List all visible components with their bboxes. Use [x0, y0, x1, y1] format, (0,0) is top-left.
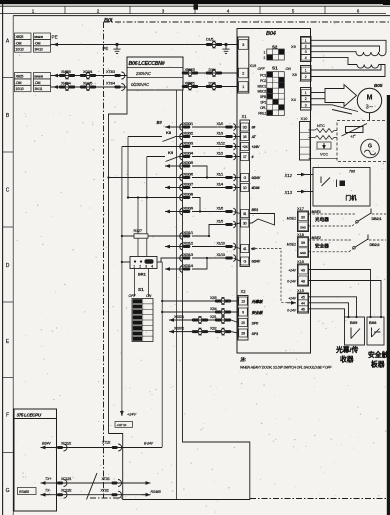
- svg-text:F: F: [6, 413, 9, 419]
- svg-text:9: 9: [242, 311, 244, 315]
- svg-text:光电器: 光电器: [314, 216, 329, 223]
- svg-text:MSE1: MSE1: [287, 217, 296, 221]
- svg-text:30: 30: [301, 215, 305, 219]
- off-page reference table (PE, group 1): [15, 33, 32, 39]
- svg-text:16: 16: [243, 135, 247, 139]
- wire v11 (BR1 to X2 rows and B-24V): [161, 262, 163, 447]
- wire X030/8 loop to X030/9: [192, 198, 200, 212]
- svg-text:1: 1: [305, 69, 307, 73]
- svg-text:X8/25: X8/25: [16, 75, 24, 79]
- svg-text:2: 2: [97, 8, 100, 13]
- svg-text:6: 6: [357, 8, 360, 13]
- ground symbol 1 on PE wire: [113, 43, 120, 54]
- svg-text:XT1/2: XT1/2: [102, 441, 110, 445]
- svg-text:X1: X1: [242, 114, 248, 119]
- X1 pin 10: [241, 184, 249, 192]
- door operator board B04: [237, 29, 311, 354]
- X1 pin 41: [241, 245, 249, 253]
- svg-text:3∼: 3∼: [366, 105, 374, 111]
- svg-text:B0I: B0I: [104, 18, 113, 24]
- door switch box (B6): [313, 168, 370, 207]
- wire X4.3 lower horn: [311, 105, 358, 112]
- switch DB2:1: [358, 213, 372, 222]
- svg-text:3: 3: [305, 103, 307, 107]
- svg-text:安全器: 安全器: [315, 243, 329, 250]
- X1 pin 31: [241, 210, 249, 218]
- wire v8 below BR1: [134, 269, 136, 297]
- wire B06 output 230V via XB17/2, D1/4 to X19.2: [183, 72, 237, 74]
- svg-text:X1/2: X1/2: [217, 151, 224, 155]
- svg-text:+24V: +24V: [288, 269, 297, 273]
- arrow +24V end: [120, 410, 124, 416]
- svg-text:MSE2: MSE2: [287, 242, 296, 246]
- svg-text:ON: ON: [286, 67, 292, 71]
- svg-text:+24: +24: [242, 145, 247, 149]
- arrow into PE reference: [53, 43, 62, 47]
- svg-text:0-24V: 0-24V: [287, 280, 297, 284]
- svg-text:RS485: RS485: [19, 490, 29, 494]
- svg-text:PC1: PC1: [260, 73, 266, 77]
- scan artifact: top black bar: [0, 0, 390, 4]
- X1 pin 16: [241, 133, 249, 141]
- svg-text:X17: X17: [297, 206, 304, 211]
- svg-text:X2/4: X2/4: [210, 307, 217, 311]
- wire X16.49 to relay B08: [309, 270, 371, 318]
- unit boundary B01: dash-dot enclosure: [104, 21, 390, 23]
- svg-text:OFF: OFF: [129, 294, 137, 298]
- dashed enclosure: motor sensors: [337, 121, 389, 162]
- svg-text:B09: B09: [350, 320, 358, 325]
- wire v7 (K9 branch to BR1): [146, 157, 148, 258]
- svg-text:X8: X8: [292, 72, 297, 77]
- svg-text:DB2:2: DB2:2: [370, 243, 380, 247]
- svg-text:1: 1: [305, 91, 307, 95]
- svg-text:39: 39: [301, 241, 305, 245]
- wire X4.2: [311, 98, 325, 100]
- svg-text:RRL1: RRL1: [258, 112, 266, 116]
- wire X15.45 to relay B09: [309, 297, 357, 317]
- svg-text:X1/12: X1/12: [217, 141, 225, 145]
- svg-text:X1/0: X1/0: [217, 122, 224, 126]
- svg-text:X9: X9: [291, 44, 296, 49]
- svg-text:OFF: OFF: [258, 67, 266, 71]
- svg-text:X031/1: X031/1: [183, 231, 193, 235]
- svg-text:X15: X15: [297, 288, 304, 293]
- wire X9.4: [311, 57, 357, 64]
- wire TX+ / RS485: [41, 482, 147, 484]
- wire from B06 bottom down to terminal area: [176, 90, 178, 500]
- svg-text:GND: GND: [300, 251, 306, 255]
- wire NTC return: [309, 136, 338, 140]
- svg-text:13: 13: [241, 300, 245, 304]
- svg-text:10: 10: [243, 186, 247, 190]
- X1 pin 30: [241, 219, 249, 227]
- inductor coil L1: [356, 52, 386, 56]
- svg-text:X030/4: X030/4: [183, 151, 193, 155]
- jumper block BR1: [122, 261, 130, 263]
- svg-text:29: 29: [241, 332, 245, 336]
- svg-text:X030/6: X030/6: [183, 172, 193, 176]
- wire X030/3 to +24V rail: [122, 146, 183, 148]
- svg-text:S2: S2: [272, 44, 278, 49]
- wire v2 (from B06 bottom-left jog): [109, 90, 128, 434]
- wire PE horizontal run: [51, 44, 238, 46]
- svg-text:S1: S1: [272, 66, 278, 71]
- svg-text:X031/3: X031/3: [183, 253, 193, 257]
- dashed wire MSE1 to DB2:1: [309, 213, 356, 215]
- svg-text:MSC1: MSC1: [257, 84, 266, 88]
- svg-text:B#: B#: [157, 120, 163, 125]
- svg-text:2: 2: [305, 45, 307, 49]
- svg-text:X8/25: X8/25: [16, 35, 24, 39]
- off-page reference table (mains, group 2): [15, 73, 32, 79]
- svg-text:安全触: 安全触: [368, 350, 389, 359]
- inductor coil L2: [357, 65, 379, 69]
- X2 pin 9: [239, 308, 248, 316]
- motor ground stub: [369, 113, 371, 121]
- encoder G: [361, 139, 380, 158]
- svg-text:X10: X10: [301, 116, 309, 121]
- dashed wire MSE2 to DB2:2: [309, 239, 353, 241]
- svg-text:SP1: SP1: [252, 332, 259, 336]
- wire B06 output 0V via XB17/1, D1/3 to X19.1: [183, 86, 237, 88]
- svg-text:41: 41: [243, 247, 247, 251]
- X1 pin G: [241, 257, 249, 265]
- svg-text:TX-: TX-: [45, 489, 51, 493]
- wire X031/4 loop up to X031/3: [192, 258, 207, 269]
- svg-text:PC2: PC2: [260, 79, 266, 83]
- relay B08 (safety edge): [367, 317, 384, 345]
- svg-text:XT3/4: XT3/4: [106, 82, 115, 86]
- X1 pin G: [241, 174, 249, 182]
- svg-text:X4: X4: [291, 97, 297, 102]
- wire B/24V to XT1/2: [41, 447, 163, 449]
- svg-text:G: G: [368, 144, 372, 150]
- svg-text:48: 48: [301, 280, 305, 284]
- frame: top number band lines: [0, 5, 390, 7]
- svg-text:1: 1: [133, 265, 135, 269]
- svg-text:SPB: SPB: [260, 95, 267, 99]
- svg-text:X13: X13: [284, 190, 293, 195]
- svg-text:786: 786: [349, 170, 355, 174]
- frame: inner drawing border: [13, 15, 390, 17]
- svg-text:+t°: +t°: [350, 134, 356, 139]
- svg-text:XT2/1: XT2/1: [102, 477, 110, 481]
- X2 pin 29: [239, 329, 248, 337]
- frame: column number ticks: [64, 6, 66, 13]
- svg-text:X1/6: X1/6: [217, 206, 224, 210]
- twisted pair symbol: [87, 473, 98, 500]
- svg-text:X1/5: X1/5: [217, 219, 224, 223]
- svg-text:X12: X12: [284, 173, 293, 178]
- svg-text:X1/10: X1/10: [217, 241, 225, 245]
- svg-text:-C27 10: -C27 10: [117, 423, 127, 427]
- svg-text:K9: K9: [168, 150, 174, 155]
- svg-text:0/230VAC: 0/230VAC: [131, 82, 150, 87]
- thermistor +t: [346, 127, 364, 133]
- svg-text:X16: X16: [297, 259, 304, 264]
- svg-text:B04: B04: [266, 31, 277, 37]
- svg-text:板器: 板器: [371, 360, 385, 369]
- svg-text:X1/1: X1/1: [217, 172, 224, 176]
- svg-text:光幕板: 光幕板: [251, 299, 264, 304]
- svg-text:X1/4: X1/4: [217, 182, 224, 186]
- svg-text:X037/1: X037/1: [174, 315, 184, 319]
- svg-text:X84&X8: X84&X8: [34, 35, 43, 39]
- svg-text:X030/5: X030/5: [183, 161, 193, 165]
- svg-text:#: #: [252, 155, 254, 159]
- wire loop B06 to bottom terminal area: [109, 90, 250, 500]
- svg-text:OFL: OFL: [260, 106, 266, 110]
- frame: left letter band inner line + row ticks: [12, 16, 14, 515]
- svg-text:门机: 门机: [346, 194, 358, 202]
- wire X030/6 long left run: [109, 177, 184, 179]
- svg-text:X2/1: X2/1: [210, 315, 217, 319]
- svg-text:MSC2: MSC2: [257, 90, 266, 94]
- connector row X037/2 / X2/2: [177, 331, 231, 333]
- resistor R127 on X031/1 row: [122, 235, 134, 237]
- svg-text:X18: X18: [297, 232, 304, 237]
- wire 0/230VAC feed (XM5/4-XC3/5-XT3/4): [51, 86, 128, 88]
- svg-text:DB2:1: DB2:1: [372, 217, 382, 221]
- svg-text:0/24V: 0/24V: [252, 176, 261, 180]
- svg-text:3: 3: [162, 8, 165, 13]
- scan artifact: right black edge bar: [387, 95, 390, 515]
- svg-text:B08: B08: [369, 320, 377, 325]
- svg-text:45: 45: [301, 296, 305, 300]
- X2 pin 13: [239, 297, 248, 305]
- wire X2/4 row: [162, 311, 238, 313]
- svg-text:0/24V: 0/24V: [252, 260, 261, 264]
- svg-text:MSE1: MSE1: [312, 210, 321, 214]
- svg-text:NTC: NTC: [317, 123, 325, 128]
- wire v4 +24V rail: [121, 147, 123, 412]
- connector X19 on B04: [238, 37, 249, 93]
- svg-text:2: 2: [305, 97, 307, 101]
- dashed link pin 41 to X15 pin 44: [251, 249, 287, 303]
- svg-text:2: 2: [305, 75, 307, 79]
- svg-text:1/3 10: 1/3 10: [16, 87, 24, 91]
- svg-text:4: 4: [227, 8, 230, 13]
- svg-text:-DM: -DM: [35, 41, 41, 45]
- wire X030/9 to pin 31 (slight bend): [234, 212, 241, 214]
- svg-text:X030/9: X030/9: [183, 206, 193, 210]
- wire TX- / RS485: [41, 494, 147, 496]
- svg-text:44: 44: [301, 302, 305, 306]
- svg-text:X037/2: X037/2: [174, 326, 184, 330]
- svg-text:2: 2: [139, 265, 141, 269]
- wire v6 (to BR1): [137, 198, 139, 258]
- svg-text:PE: PE: [52, 35, 58, 40]
- svg-text:1: 1: [32, 8, 35, 13]
- svg-text:B-24V: B-24V: [144, 442, 154, 446]
- svg-text:-DM: -DM: [16, 41, 22, 45]
- X1 pin 17: [241, 153, 249, 161]
- svg-text:1/3 10: 1/3 10: [16, 48, 24, 52]
- connector row X037/1 / X2/1: [177, 319, 231, 321]
- svg-text:3/4 10: 3/4 10: [35, 48, 43, 52]
- svg-text:S1: S1: [138, 287, 144, 292]
- svg-text:0#: 0#: [252, 126, 256, 130]
- svg-text:X19: X19: [250, 64, 257, 68]
- svg-text:B06 LCECCBN#: B06 LCECCBN#: [129, 61, 165, 67]
- switch DB2:2: [355, 239, 369, 248]
- wire X8.2: [311, 65, 385, 77]
- svg-text:2: 2: [264, 56, 266, 60]
- svg-text:30: 30: [243, 222, 247, 226]
- svg-text:0-24V: 0-24V: [287, 309, 297, 313]
- svg-text:46: 46: [301, 308, 305, 312]
- svg-text:3: 3: [145, 265, 147, 269]
- link symbol between pins 31 and 30: [250, 214, 275, 226]
- shield symbol: [317, 142, 331, 149]
- X1 pin SD: [241, 123, 249, 131]
- svg-text:B05: B05: [374, 83, 383, 89]
- svg-text:X030/3: X030/3: [183, 141, 193, 145]
- svg-text:X031/4: X031/4: [183, 264, 193, 268]
- svg-text:+24V: +24V: [127, 413, 136, 417]
- ground symbol 2 before X19: [222, 43, 229, 54]
- RS485 label box inside LCECPU: [18, 488, 37, 495]
- svg-text:RS485: RS485: [151, 490, 161, 494]
- wire X9.1: [311, 40, 386, 52]
- svg-text:SP1: SP1: [260, 101, 266, 105]
- svg-text:X1/3: X1/3: [217, 131, 224, 135]
- svg-text:X2/5: X2/5: [210, 296, 217, 300]
- wire X4.1: [311, 92, 325, 94]
- svg-text:R127: R127: [134, 229, 142, 233]
- svg-text:TX+: TX+: [45, 477, 52, 481]
- svg-text:D1/5: D1/5: [206, 38, 213, 42]
- wire X031/2 to pin 41: [234, 247, 241, 249]
- svg-text:D: D: [6, 263, 10, 269]
- wire X031/3 hook to BR1: [161, 258, 183, 262]
- svg-text:X030/1: X030/1: [183, 122, 193, 126]
- reference box -C27 10: [115, 422, 133, 428]
- svg-text:PE: PE: [103, 46, 109, 51]
- svg-text:X030/8: X030/8: [183, 192, 193, 196]
- cable arrow to motor: [325, 85, 357, 107]
- svg-text:ON: ON: [146, 294, 152, 298]
- svg-text:X1/13: X1/13: [217, 253, 225, 257]
- svg-text:XT3/3: XT3/3: [106, 70, 115, 74]
- switch blade inside: [320, 177, 322, 184]
- svg-text:X2/2: X2/2: [210, 326, 217, 330]
- svg-text:X030/2: X030/2: [183, 131, 193, 135]
- svg-text:X84&X8: X84&X8: [34, 75, 43, 79]
- svg-text:X2: X2: [241, 289, 247, 294]
- wire X030/8 left run with junctions: [128, 197, 183, 199]
- svg-text:注:: 注:: [240, 357, 247, 362]
- svg-text:XT2/2: XT2/2: [101, 489, 109, 493]
- wire v5 (K8 branch): [127, 137, 129, 198]
- svg-text:#8: #8: [252, 247, 256, 251]
- svg-text:3/4 11: 3/4 11: [35, 87, 43, 91]
- svg-text:4: 4: [305, 56, 307, 60]
- svg-text:B/24V: B/24V: [42, 442, 51, 446]
- svg-text:X031/2: X031/2: [183, 241, 193, 245]
- svg-text:-DM: -DM: [35, 81, 41, 85]
- svg-text:+24V: +24V: [288, 297, 297, 301]
- X1 pin +24: [241, 143, 249, 151]
- drawing frame: outer left border line: [2, 4, 4, 515]
- svg-text:230VAC: 230VAC: [135, 71, 152, 76]
- wire v9 below BR1: [148, 269, 150, 297]
- svg-text:VCC: VCC: [320, 152, 328, 157]
- transformer unit B06 LCECCBN#: [127, 57, 183, 90]
- svg-text:MSE2: MSE2: [312, 236, 321, 240]
- svg-text:WHEN HEAVY DOOR, S1 DIP SWITCH: WHEN HEAVY DOOR, S1 DIP SWITCH OFL SHOUL…: [240, 366, 332, 370]
- svg-text:49: 49: [301, 269, 305, 273]
- svg-text:375 LCECPU: 375 LCECPU: [17, 413, 42, 418]
- wire X16.48 to relay B08: [309, 281, 382, 318]
- svg-text:5: 5: [292, 8, 295, 13]
- wire X8.1: [311, 65, 381, 71]
- switch K8 on X030/2: [128, 136, 162, 138]
- X2 pin 20: [239, 319, 248, 327]
- svg-text:C: C: [6, 188, 10, 194]
- svg-text:GND: GND: [300, 225, 306, 229]
- svg-text:G: G: [6, 488, 10, 494]
- wire X15.46: [309, 309, 345, 317]
- svg-text:SD: SD: [242, 126, 247, 130]
- wire X2/5 row: [162, 300, 238, 302]
- scan artifact: top center tick: [194, 4, 199, 10]
- svg-text:3: 3: [305, 50, 307, 54]
- wire 230VAC feed (XM5/5-XC3/4-XT3/3): [51, 75, 128, 77]
- svg-text:31: 31: [243, 212, 247, 216]
- wire X15.44 to relay B09: [309, 303, 349, 317]
- wire X9.3: [311, 51, 356, 53]
- wire X030/5 loop to X030/6: [192, 166, 207, 178]
- svg-text:M: M: [367, 95, 373, 102]
- svg-text:SP0: SP0: [252, 321, 260, 325]
- svg-text:#D8#: #D8#: [252, 186, 260, 190]
- svg-text:+24V: +24V: [252, 145, 260, 149]
- svg-text:17: 17: [243, 155, 247, 159]
- svg-text:-DM: -DM: [16, 81, 22, 85]
- wire X9.2: [311, 46, 380, 52]
- svg-text:光幕/传: 光幕/传: [335, 345, 358, 354]
- svg-text:收器: 收器: [340, 355, 354, 364]
- svg-text:K8: K8: [166, 130, 172, 135]
- svg-text:X030/7: X030/7: [183, 182, 193, 186]
- switch K9 on X030/4: [147, 156, 165, 158]
- svg-text:1: 1: [305, 39, 307, 43]
- svg-text:BR1: BR1: [138, 272, 147, 277]
- svg-text:1: 1: [264, 51, 266, 55]
- svg-text:安全板: 安全板: [252, 310, 264, 315]
- svg-text:BR1: BR1: [252, 208, 259, 212]
- svg-text:20: 20: [241, 321, 245, 325]
- controller board 375 LCECPU: [14, 409, 57, 511]
- relay B09 (light curtain receiver): [345, 317, 365, 345]
